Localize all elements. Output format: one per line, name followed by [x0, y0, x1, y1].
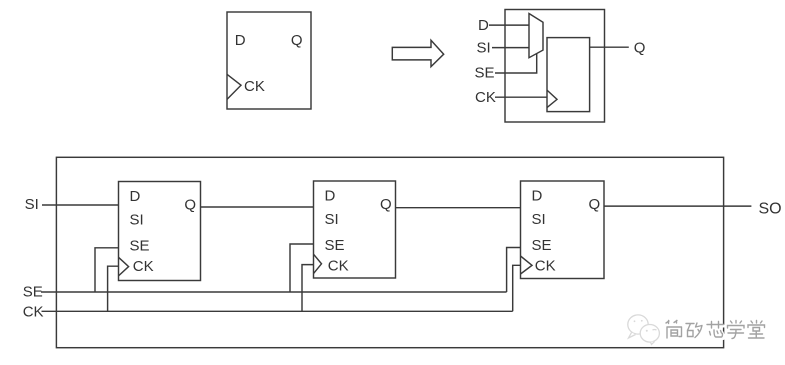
svg-text:SE: SE — [23, 283, 43, 300]
svg-text:SE: SE — [475, 65, 495, 82]
svg-text:CK: CK — [133, 258, 154, 275]
svg-text:CK: CK — [244, 78, 265, 95]
wire CK bus — [42, 310, 513, 312]
flip-flop FF3 body — [521, 181, 605, 279]
wire D input to mux — [489, 24, 529, 26]
clock triangle (scan flip-flop) — [547, 90, 557, 108]
svg-text:CK: CK — [23, 303, 44, 320]
clock triangle (FF3) — [521, 256, 533, 274]
wire CK input to scan flip-flop — [495, 96, 547, 98]
big box (scan chain boundary) — [56, 157, 723, 347]
mux M1 (scan flip-flop input mux) — [529, 14, 543, 58]
svg-text:SE: SE — [532, 237, 552, 254]
clock triangle (DFF1) — [227, 74, 241, 99]
flip-flop FF1 body — [119, 182, 201, 281]
svg-text:Q: Q — [184, 196, 196, 213]
wire SI input to FF1 D — [42, 204, 119, 206]
wire CK tap to FF3 — [513, 265, 521, 311]
wire SE bus — [41, 291, 507, 293]
svg-text:D: D — [532, 188, 543, 205]
watermark text gray layer (简矽芯学堂) — [666, 321, 765, 339]
svg-text:SE: SE — [325, 237, 345, 254]
flip-flop FF2 body — [314, 181, 396, 278]
wire CK tap to FF1 — [108, 266, 119, 311]
svg-text:Q: Q — [589, 196, 601, 213]
inner flip-flop box (scan flip-flop) — [547, 38, 590, 112]
wire FF3 Q to SO output — [604, 205, 751, 207]
svg-text:SI: SI — [130, 212, 144, 229]
svg-text:CK: CK — [328, 257, 349, 274]
svg-text:D: D — [130, 188, 141, 205]
wire Q output of scan flip-flop — [590, 46, 629, 48]
wire SE tap to FF1 — [95, 248, 119, 292]
flip-flop DFF1 (plain D flip-flop) body — [227, 12, 311, 109]
clock triangle (FF2) — [314, 254, 322, 273]
clock triangle (FF1) — [119, 257, 129, 276]
svg-text:CK: CK — [475, 89, 496, 106]
svg-text:SI: SI — [532, 211, 546, 228]
wire FF1 Q to FF2 D — [201, 206, 314, 208]
wire CK tap to FF2 — [302, 265, 314, 312]
svg-text:SE: SE — [130, 238, 150, 255]
wire SE input to mux select — [495, 54, 537, 73]
svg-text:Q: Q — [291, 32, 303, 49]
svg-text:Q: Q — [380, 196, 392, 213]
svg-text:CK: CK — [535, 257, 556, 274]
svg-text:D: D — [478, 17, 489, 34]
wire FF2 Q to FF3 D — [396, 207, 521, 209]
svg-text:SI: SI — [325, 211, 339, 228]
svg-text:SI: SI — [25, 196, 39, 213]
wire SE tap to FF2 — [290, 244, 314, 292]
wire SE tap to FF3 — [507, 248, 521, 293]
watermark logo (two chat bubbles) — [628, 315, 660, 345]
svg-text:Q: Q — [634, 39, 646, 56]
arrow (transform symbol) — [392, 40, 443, 66]
svg-text:D: D — [325, 188, 336, 205]
wire SI input to mux — [492, 47, 529, 49]
watermark text white emboss layer — [668, 322, 767, 340]
scan flip-flop outer box — [505, 10, 605, 123]
svg-text:D: D — [235, 32, 246, 49]
svg-text:SO: SO — [759, 200, 782, 217]
svg-text:SI: SI — [477, 40, 491, 57]
